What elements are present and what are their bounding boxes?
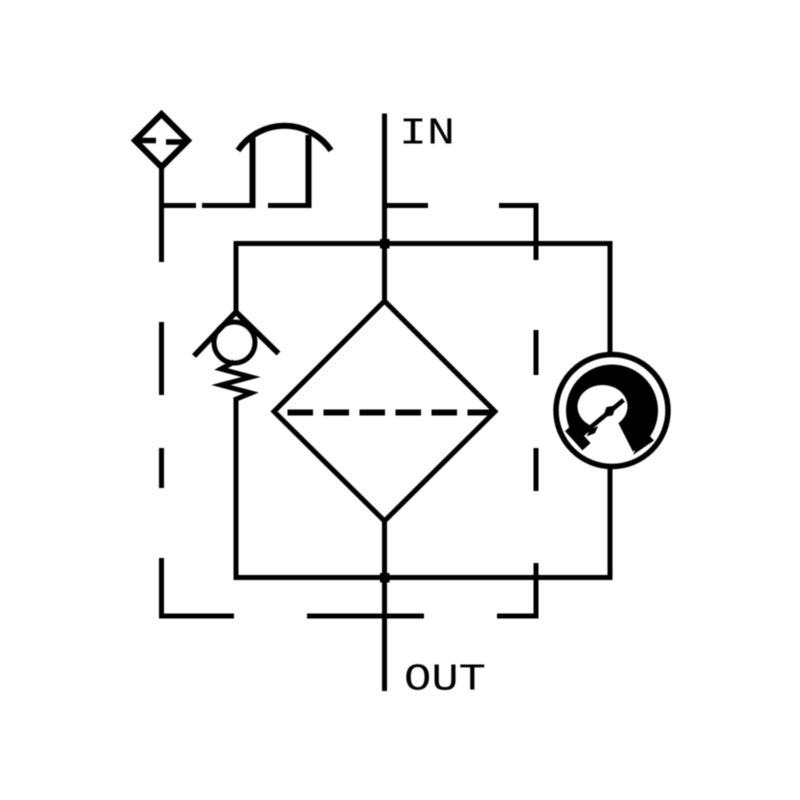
- enclosure dashed top side: [159, 203, 539, 208]
- wire: left branch lower (from spring): [234, 398, 239, 578]
- pressure gauge outer circle: [556, 355, 668, 467]
- junction: IN line and top line: [380, 239, 390, 249]
- clogging indicator symbol (diamond with arrows): [134, 114, 188, 167]
- svg-text:OUT: OUT: [404, 659, 486, 702]
- wire: left branch upper (to check valve): [234, 244, 239, 316]
- breather symbol left leg: [250, 137, 256, 208]
- filter element dashed mesh line: [288, 410, 493, 416]
- check valve spring: [221, 362, 251, 400]
- breather symbol right leg: [306, 135, 312, 208]
- wire: OUT line: [382, 519, 387, 691]
- enclosure dashed right side: [534, 203, 539, 619]
- filter element diamond: [274, 301, 495, 521]
- pressure gauge body fill: [556, 355, 668, 467]
- enclosure dashed bottom side: [159, 614, 539, 619]
- pressure gauge black scale arc: [565, 365, 658, 463]
- wire: filter body top line: [234, 241, 613, 246]
- junction: OUT line and bottom line: [380, 573, 390, 583]
- wire: right branch (to gauge): [608, 244, 613, 578]
- check valve seat right: [236, 312, 279, 354]
- wire: indicator stem down to enclosure corner: [159, 167, 164, 208]
- wire: IN line: [382, 114, 387, 304]
- pressure gauge needle: [579, 400, 624, 437]
- breather symbol arc: [238, 126, 331, 151]
- wire: filter body bottom line: [234, 575, 613, 580]
- enclosure dashed left side: [159, 203, 164, 619]
- check valve seat left: [194, 312, 236, 356]
- check valve ball: [214, 322, 255, 363]
- svg-text:IN: IN: [399, 113, 455, 156]
